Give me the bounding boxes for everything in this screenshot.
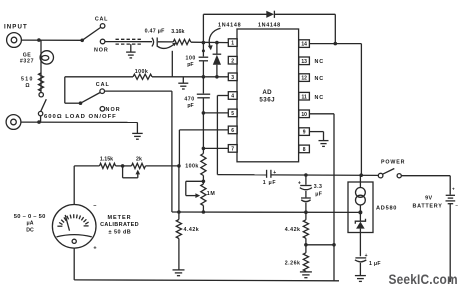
svg-text:3: 3 — [231, 75, 234, 81]
label AD 536J — [259, 89, 275, 104]
wire CAL to cal net — [105, 91, 172, 212]
svg-text:POWER: POWER — [381, 160, 405, 166]
capacitor C4 1uF series — [267, 170, 277, 178]
labels NC — [315, 59, 324, 101]
svg-text:0.47 μF: 0.47 μF — [145, 29, 166, 35]
svg-text:11: 11 — [301, 94, 307, 100]
svg-text:2: 2 — [231, 58, 234, 64]
node S3 pole — [79, 101, 83, 105]
label METER CALIBRATED +-50dB — [100, 215, 139, 235]
svg-text:1 μF: 1 μF — [369, 261, 381, 267]
wire trim tap down to pin3 net — [171, 51, 173, 77]
resistor R7 2k trimmer — [132, 163, 146, 168]
node arrow tip mark — [202, 49, 205, 52]
meter M1 — [52, 205, 96, 249]
pin 8 — [299, 145, 310, 153]
svg-text:7: 7 — [231, 147, 234, 153]
svg-text:100k: 100k — [185, 164, 198, 170]
node U2 supply — [359, 173, 363, 177]
wire pin 4 to supply rail — [217, 96, 228, 175]
wire cap to resistor — [158, 41, 173, 43]
wire meter to bottom rail — [73, 248, 75, 280]
svg-text:1.15k: 1.15k — [100, 156, 113, 162]
node input junction — [37, 38, 41, 42]
node divider — [177, 164, 181, 168]
wire R7 to node — [146, 165, 179, 167]
svg-text:4: 4 — [231, 94, 234, 100]
wire pot to cal rail — [202, 206, 204, 213]
wire bottom jack to ground — [21, 121, 137, 123]
resistor R2 3.16k — [173, 39, 191, 44]
node pin14 — [334, 42, 338, 46]
svg-text:μA: μA — [27, 221, 34, 227]
pot wiper loop — [186, 181, 204, 198]
wire to pin 7 — [203, 147, 228, 149]
svg-text:pF: pF — [187, 103, 193, 109]
ground shield — [126, 52, 136, 58]
wire down-left to switch S3 — [65, 77, 80, 103]
diode D2 1N4148 vertical — [213, 43, 222, 77]
node trim tap — [121, 164, 125, 168]
voltage reference U2 AD580 — [348, 182, 373, 233]
ground R8 — [173, 270, 185, 276]
pin 7 — [228, 145, 237, 153]
svg-text:1N4148: 1N4148 — [258, 23, 281, 29]
pin 9 — [299, 128, 310, 136]
svg-text:+: + — [452, 187, 455, 192]
node jack junction — [37, 120, 41, 124]
wire R8 to ground — [178, 239, 180, 270]
svg-text:5: 5 — [231, 111, 234, 117]
node pot top — [202, 180, 206, 184]
wire switch to battery — [401, 176, 450, 195]
label 3.3 uF — [314, 184, 323, 198]
wire meter to R6 — [74, 166, 99, 205]
ground input net — [178, 83, 188, 89]
capacitor C3 470pF — [197, 77, 210, 113]
pin 10 — [299, 110, 310, 118]
wire into AD580 — [359, 175, 361, 187]
wire pin 10 — [310, 113, 335, 115]
wire tap to meter return — [306, 244, 334, 246]
wire R4 to pot — [202, 176, 204, 185]
wire to pin 5 — [203, 112, 228, 114]
svg-text:4.42k: 4.42k — [285, 227, 301, 233]
svg-text:2k: 2k — [136, 156, 142, 162]
svg-text:12: 12 — [301, 76, 307, 82]
ground load — [132, 133, 143, 139]
connector J2 bottom jack — [6, 115, 21, 130]
svg-text:470: 470 — [184, 97, 194, 103]
ground pin9 — [319, 141, 329, 147]
node A dot — [202, 41, 206, 45]
svg-text:NC: NC — [315, 95, 324, 101]
svg-text:13: 13 — [301, 59, 307, 65]
resistor R10 2.26k — [303, 253, 308, 271]
node C5 bottom — [304, 210, 308, 214]
svg-text:8: 8 — [303, 147, 306, 153]
label GE #327 — [20, 52, 34, 64]
svg-text:INPUT: INPUT — [4, 24, 28, 31]
label 510 ohm — [21, 77, 34, 90]
wire down through lamp — [40, 40, 42, 92]
wire down to ground — [136, 122, 138, 133]
svg-text:NOR: NOR — [94, 48, 109, 54]
wire rail to power switch — [271, 174, 378, 177]
node divider tap — [304, 243, 308, 247]
svg-text:50 – 0 – 50: 50 – 0 – 50 — [14, 214, 46, 220]
svg-text:μF: μF — [315, 191, 322, 197]
resistor R9 4.42k — [305, 212, 307, 220]
svg-text:1M: 1M — [207, 191, 216, 197]
svg-text:CAL: CAL — [96, 82, 110, 88]
ground R10 — [300, 272, 312, 278]
wire NOR to cap — [105, 41, 152, 43]
svg-text:+: + — [93, 246, 96, 252]
label 470 pF — [184, 97, 194, 109]
resistor R8 4.42k — [178, 212, 180, 220]
wire supply rail — [217, 174, 266, 176]
svg-text:BATTERY: BATTERY — [412, 203, 442, 209]
diode D1 1N4148 — [266, 11, 274, 18]
node pin7 — [202, 147, 206, 151]
pin 3 — [228, 73, 237, 81]
svg-text:METER: METER — [108, 215, 132, 221]
wire divider down — [178, 166, 180, 212]
resistor R6 1.15k — [100, 163, 116, 168]
svg-text:AD: AD — [262, 89, 272, 96]
svg-text:NC: NC — [315, 76, 324, 82]
wire cal rail — [172, 211, 361, 213]
capacitor C5 3.3uF — [298, 175, 312, 212]
svg-text:± 50 dB: ± 50 dB — [109, 229, 132, 235]
svg-text:1 μF: 1 μF — [263, 180, 276, 186]
svg-text:9: 9 — [303, 130, 306, 136]
current source circles — [356, 188, 366, 206]
wire bottom return — [74, 279, 339, 282]
svg-text:4.42k: 4.42k — [184, 227, 200, 233]
svg-text:Ω: Ω — [25, 83, 29, 89]
svg-text:NOR: NOR — [106, 107, 121, 113]
pin 2 — [228, 56, 237, 64]
label 9V BATTERY — [412, 196, 442, 210]
wire pin 14 to supply — [310, 44, 362, 176]
svg-text:3.3: 3.3 — [314, 184, 323, 190]
wire R10 to ground — [305, 270, 307, 273]
svg-text:CAL: CAL — [95, 16, 108, 22]
battery BT1 9V — [446, 187, 459, 282]
resistor R4 100k — [202, 148, 204, 153]
resistor R3 100k — [133, 74, 152, 79]
svg-text:100: 100 — [185, 56, 195, 62]
svg-text:–: – — [455, 202, 458, 207]
trim arrow for R2 — [157, 42, 176, 48]
pin 4 — [228, 92, 237, 100]
ground C6 — [355, 276, 366, 282]
svg-text:6: 6 — [231, 128, 234, 134]
connector J1 input jack — [7, 33, 22, 48]
wire pin 9 to ground — [310, 132, 324, 141]
svg-text:NC: NC — [315, 59, 324, 65]
wire R9 to R10 — [305, 238, 307, 253]
shielded cable dashes — [116, 39, 142, 52]
switch S4 power — [378, 169, 401, 178]
pin 11 — [299, 92, 310, 100]
lamp DS1 GE #327 — [40, 51, 53, 64]
pin 1 — [228, 39, 237, 47]
pin 5 — [228, 109, 237, 117]
wire diode to corner — [274, 13, 335, 15]
wire ground stem — [182, 77, 184, 83]
node pot bottom — [202, 210, 206, 214]
wire pin 6 from divider — [179, 130, 228, 166]
svg-text:1N4148: 1N4148 — [218, 23, 241, 29]
svg-text:pF: pF — [187, 62, 193, 68]
node D2 cathode net — [215, 41, 219, 45]
svg-text:−: − — [93, 203, 96, 209]
svg-text:CALIBRATED: CALIBRATED — [100, 222, 139, 228]
svg-text:100k: 100k — [135, 69, 149, 75]
svg-text:9V: 9V — [425, 196, 432, 202]
wire 100k net to pin 3 — [65, 76, 133, 78]
svg-text:2.26k: 2.26k — [285, 261, 301, 267]
svg-text:600Ω LOAD ON/OFF: 600Ω LOAD ON/OFF — [44, 114, 117, 120]
trimmer wiper loop — [123, 166, 141, 178]
node pin5 — [202, 111, 206, 115]
svg-text:1: 1 — [231, 41, 234, 47]
op-amp U1 AD536J body — [237, 29, 299, 162]
pin 14 — [299, 40, 310, 48]
switch S1 CAL/NOR — [80, 39, 84, 43]
node D2 anode — [215, 75, 219, 79]
wire down to pin 14 — [334, 14, 336, 43]
zener diode D3 — [355, 205, 365, 256]
wire input to switch S1 — [21, 39, 81, 41]
svg-text:536J: 536J — [259, 96, 275, 103]
svg-text:DC: DC — [26, 228, 34, 234]
pin 13 — [299, 57, 310, 65]
svg-text:SeekIC.com: SeekIC.com — [389, 271, 458, 287]
svg-text:10: 10 — [301, 112, 307, 118]
potentiometer R5 1M — [201, 184, 206, 206]
resistor R1 510 ohm — [39, 73, 44, 91]
svg-text:AD580: AD580 — [376, 206, 397, 212]
wire up from node A — [202, 14, 204, 42]
svg-text:14: 14 — [301, 42, 307, 48]
wire top feedback — [203, 13, 266, 15]
svg-text:3.16k: 3.16k — [171, 29, 184, 35]
node C2 bottom — [202, 75, 206, 79]
svg-text:510: 510 — [21, 77, 34, 83]
capacitor C6 1uF — [355, 253, 368, 276]
wire pin5 to pin7 node — [202, 113, 204, 148]
wire R2 to pin 1 — [191, 41, 229, 43]
wire up to divider tap — [333, 114, 335, 281]
capacitor C2 100pF — [199, 43, 209, 77]
svg-text:#327: #327 — [20, 58, 34, 64]
label 100 pF — [185, 56, 195, 68]
wire R3 to pin 3 — [152, 76, 228, 78]
pin 6 — [228, 126, 237, 134]
switch S2 load on/off — [38, 93, 46, 123]
wire R6 to R7 — [116, 165, 132, 167]
label 50-0-50 uA DC — [14, 214, 46, 234]
node C5 top — [304, 173, 308, 177]
capacitor C1 0.47uF — [152, 38, 157, 47]
pin 12 — [299, 74, 310, 82]
node zener — [358, 210, 362, 214]
